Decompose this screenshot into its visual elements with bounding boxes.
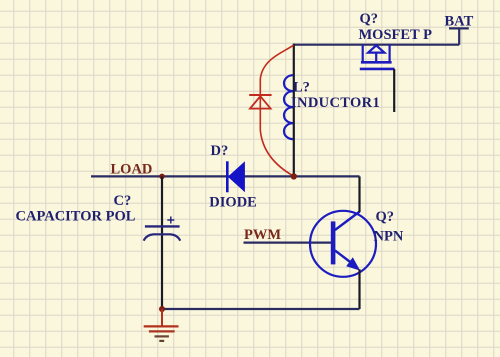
svg-text:INDUCTOR1: INDUCTOR1 — [291, 95, 380, 111]
capacitor C? curved plate — [144, 234, 181, 240]
diode D? cathode bar — [226, 161, 229, 192]
red diode (freehand) cathode bar — [249, 94, 271, 96]
transistor base bar — [331, 221, 336, 264]
wire: main horizontal net LOAD row — [91, 175, 360, 177]
power port BAT bar — [449, 28, 469, 44]
wire: collector up to LOAD net — [358, 176, 360, 212]
wire: MOSFET gate lead going down — [393, 69, 395, 112]
svg-text:D?: D? — [211, 143, 229, 159]
capacitor C? top plate — [145, 225, 180, 227]
wire: top rail from node corner to BAT stem — [293, 44, 459, 46]
transistor emitter arrowhead — [346, 257, 360, 270]
junction node at ground tap — [159, 306, 165, 312]
svg-text:MOSFET P: MOSFET P — [359, 27, 433, 43]
svg-text:BAT: BAT — [445, 14, 474, 30]
svg-text:C?: C? — [114, 193, 132, 209]
inductor L? coil arcs — [284, 75, 293, 139]
transistor emitter stroke — [335, 251, 354, 265]
svg-text:L?: L? — [293, 80, 310, 96]
capacitor plus sign — [167, 217, 174, 224]
wire: emitter down to ground rail — [358, 269, 360, 309]
wire: bottom ground rail — [162, 308, 360, 310]
wire: capacitor branch vertical — [161, 176, 163, 309]
ground bar 2 — [149, 330, 175, 332]
wire: left vertical from top rail down to diode node — [293, 44, 295, 177]
svg-text:PWM: PWM — [244, 227, 281, 243]
svg-text:Q?: Q? — [360, 11, 379, 27]
ground bar 4 — [159, 340, 164, 342]
ground power port stem — [161, 309, 163, 326]
transistor collector stroke — [335, 212, 360, 231]
svg-text:LOAD: LOAD — [111, 162, 153, 178]
svg-text:NPN: NPN — [374, 229, 404, 245]
junction node at diode/inductor/collector — [291, 173, 297, 179]
svg-text:CAPACITOR POL: CAPACITOR POL — [16, 209, 136, 225]
wire: PWM net to transistor base — [244, 242, 332, 244]
ground bar 1 — [144, 325, 179, 327]
svg-text:Q?: Q? — [376, 209, 395, 225]
diode D? triangle — [228, 161, 245, 192]
MOSFET P-channel Q? symbol — [360, 45, 395, 69]
junction node on LOAD net at capacitor tap — [159, 174, 165, 180]
svg-text:DIODE: DIODE — [209, 195, 257, 211]
red diode (freehand) triangle — [250, 96, 271, 108]
transistor Q? NPN circle — [310, 211, 376, 277]
ground bar 3 — [155, 335, 169, 337]
freehand red wire arc (body diode path) — [260, 45, 294, 176]
